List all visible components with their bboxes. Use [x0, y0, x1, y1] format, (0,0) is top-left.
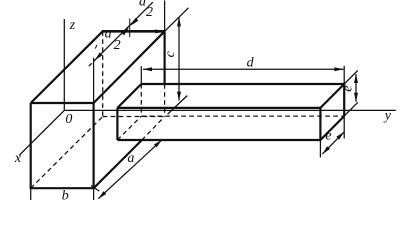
block back-right vertical edge solid part [164, 31, 166, 84]
svg-text:0: 0 [65, 112, 72, 127]
arrow d left [143, 67, 152, 71]
a/2 middle extension tick [129, 19, 131, 38]
label a/2 upper [139, 0, 153, 20]
beam top-left receding edge [117, 84, 141, 108]
block back-top edge [102, 30, 165, 33]
block back-right vertical edge extension up [164, 1, 166, 32]
z axis [63, 19, 65, 110]
block front-right vertical edge with extension up [93, 58, 95, 188]
label e top [341, 86, 356, 92]
arrow e bottom upper [336, 132, 344, 140]
arrow a/2 at tick pointing down-left [131, 18, 139, 26]
c bottom reference line on beam top face [168, 96, 188, 115]
block corner diagonal extension (c dim top reference) [165, 8, 189, 32]
label a [127, 151, 134, 166]
label d [247, 55, 255, 70]
svg-text:z: z [69, 18, 76, 33]
centerline dashes lower [89, 60, 95, 66]
b extension line left [30, 188, 32, 200]
svg-text:y: y [383, 109, 392, 124]
arrow e bottom lower [322, 146, 330, 154]
z axis label [69, 18, 76, 33]
svg-text:a: a [105, 26, 112, 41]
beam back-top edge [141, 83, 344, 85]
block top-right receding edge [94, 31, 165, 103]
block bottom-right receding edge visible [94, 140, 142, 188]
origin label 0 [65, 112, 72, 127]
arrow c top [177, 17, 181, 26]
beam end top receding edge with extension [320, 70, 357, 108]
dimension line e bottom [322, 132, 344, 154]
beam bottom-left receding edge hidden [117, 116, 141, 140]
beam back-right vertical edge with extensions [343, 66, 345, 139]
svg-text:a: a [127, 151, 134, 166]
beam end bottom receding edge with extension [320, 102, 357, 140]
dimension line c [178, 17, 180, 100]
tick through block front-bottom-right corner [91, 186, 99, 192]
svg-text:e: e [341, 86, 356, 92]
arrow e top lower [354, 93, 358, 102]
block back-left vertical edge hidden [102, 31, 104, 116]
block front-top edge [31, 102, 94, 104]
beam back-left vertical edge hidden with extension up [140, 66, 142, 116]
beam front-bottom edge [117, 139, 320, 141]
beam front-right vertical edge with extension down [319, 108, 321, 158]
arrow a upper [154, 140, 162, 148]
svg-text:a: a [139, 0, 146, 9]
svg-text:b: b [62, 189, 69, 200]
label a/2 lower [105, 26, 121, 53]
svg-text:x: x [14, 151, 22, 166]
label e bottom [325, 128, 331, 143]
block back-right vertical edge hidden part [164, 84, 166, 116]
arrow a/2 lower end [95, 52, 103, 60]
block bottom-left receding edge hidden [31, 117, 103, 189]
arrow e top upper [354, 74, 358, 83]
dimension line d [143, 68, 343, 70]
svg-text:e: e [325, 128, 331, 143]
dimension line a [98, 140, 162, 199]
arrow on back-top edge pointing right [155, 29, 164, 33]
svg-text:2: 2 [146, 5, 153, 20]
beam front-top edge [117, 107, 320, 109]
svg-text:d: d [247, 55, 255, 70]
arrow c bottom [177, 92, 181, 101]
b extension line right [93, 188, 95, 200]
y axis label [383, 109, 392, 124]
beam back-bottom edge hidden [141, 115, 344, 117]
block back-bottom edge hidden [103, 116, 165, 118]
label b [62, 189, 69, 204]
block top-left receding edge [31, 31, 103, 103]
y axis [64, 109, 396, 111]
block front-left vertical edge [30, 103, 32, 188]
small tick near lower a/2 arrow [95, 45, 97, 49]
x axis [19, 110, 64, 155]
x axis label [14, 151, 22, 166]
svg-text:c: c [163, 50, 178, 57]
dimension line e top [355, 74, 357, 102]
arrow d right [334, 67, 343, 71]
block front-bottom edge [30, 187, 95, 189]
arrow a lower [98, 191, 106, 199]
arrow a/2 at tick pointing up-right [121, 28, 129, 36]
dimension line a/2 chain [95, 2, 153, 60]
beam front-left vertical edge [116, 108, 118, 140]
label c [163, 50, 178, 57]
svg-text:2: 2 [114, 38, 121, 53]
block bottom-right receding edge hidden [142, 117, 165, 141]
